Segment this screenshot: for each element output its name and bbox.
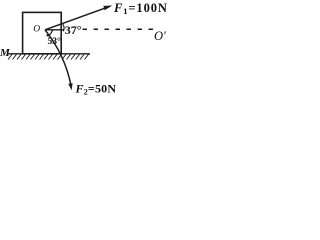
ground surface line [7, 53, 90, 55]
svg-text:O′: O′ [154, 29, 166, 43]
ground hatching [8, 54, 89, 59]
svg-text:M: M [0, 47, 11, 59]
force F2 arrow (50N down) [45, 30, 73, 91]
block (square body on ground) [23, 12, 62, 53]
force F1 arrow (100N up-right) [45, 6, 112, 30]
angle 37 arc [63, 24, 64, 31]
horizontal reference ray from O (solid part) [45, 29, 65, 31]
angle 53 arc [48, 30, 52, 36]
svg-text:F2=50N: F2=50N [75, 82, 117, 97]
svg-text:53°: 53° [48, 36, 62, 47]
svg-text:F1=100N: F1=100N [113, 1, 168, 16]
angle 53 arc ink blob [46, 34, 48, 36]
svg-text:O: O [33, 25, 40, 35]
svg-text:37°: 37° [65, 23, 82, 37]
dashed line toward O' [83, 28, 154, 30]
